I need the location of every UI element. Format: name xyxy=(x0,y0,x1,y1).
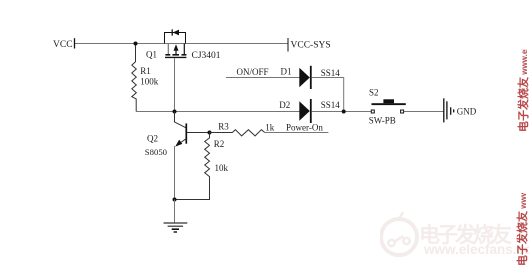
svg-text:R3: R3 xyxy=(218,122,229,132)
node VCC-SYS port tick xyxy=(287,38,289,52)
node junction D1/D2 xyxy=(342,110,346,114)
wire D2 cathode to switch xyxy=(312,111,372,113)
svg-text:VCC-SYS: VCC-SYS xyxy=(291,41,331,51)
watermark right edge bottom: www.elecfans.com 电子发烧友 (red, vertical) xyxy=(514,193,529,266)
switch S2 bar xyxy=(372,103,406,105)
transistor Q1 substrate arrow xyxy=(175,49,177,54)
svg-text:Q2: Q2 xyxy=(147,134,158,144)
node junction emitter/R2/ground xyxy=(173,198,177,202)
transistor Q2 collector lead xyxy=(175,112,187,128)
svg-text:SW-PB: SW-PB xyxy=(369,116,396,126)
transistor Q2 emitter with arrow xyxy=(177,139,187,146)
svg-text:Power-On: Power-On xyxy=(286,122,323,132)
watermark logo circle (light) xyxy=(380,212,420,260)
switch S2 button xyxy=(383,99,394,103)
svg-text:S2: S2 xyxy=(369,87,379,97)
power ground GND symbol xyxy=(444,98,454,122)
transistor Q1 channel segments xyxy=(165,54,170,56)
transistor Q1 gate bar xyxy=(165,56,186,58)
watermark right edge top: www.elecfans.com 电子发烧友 (red, vertical) xyxy=(515,49,529,132)
wire Q1 gate lead xyxy=(174,58,176,112)
switch S2 left terminal xyxy=(371,110,374,113)
svg-text:10k: 10k xyxy=(215,163,229,173)
node junction VCC/R1 xyxy=(134,42,138,46)
diode D2 xyxy=(299,101,310,120)
svg-text:D2: D2 xyxy=(279,100,290,110)
svg-text:S8050: S8050 xyxy=(145,147,168,157)
node VCC port tick xyxy=(74,38,76,48)
transistor Q1 body diode xyxy=(173,30,179,36)
transistor Q2 base bar xyxy=(185,123,187,143)
wire ON/OFF stub xyxy=(226,77,300,79)
svg-text:GND: GND xyxy=(457,107,477,117)
wire VCC rail xyxy=(75,43,289,45)
wire Power-On stub xyxy=(265,132,329,134)
switch S2 right terminal xyxy=(401,110,404,113)
svg-text:SS14: SS14 xyxy=(321,100,341,110)
wire mid rail to D2 anode xyxy=(136,111,300,113)
resistor R2 xyxy=(175,133,210,200)
svg-text:ON/OFF: ON/OFF xyxy=(237,67,269,77)
svg-text:R2: R2 xyxy=(214,139,225,149)
svg-text:VCC: VCC xyxy=(53,40,73,50)
svg-text:100k: 100k xyxy=(140,76,159,86)
svg-text:Q1: Q1 xyxy=(146,50,157,60)
wire ground stem xyxy=(174,200,176,223)
diode D1 xyxy=(299,68,310,87)
watermark url www.elecfans.com (light) xyxy=(424,242,529,257)
resistor R3 xyxy=(210,130,265,136)
ground xyxy=(164,223,188,232)
svg-text:SS14: SS14 xyxy=(321,68,341,78)
transistor Q1 body-diode loop xyxy=(165,33,186,44)
transistor Q1 drain stub xyxy=(183,44,185,55)
svg-text:CJ3401: CJ3401 xyxy=(192,51,221,61)
node junction base/R2/R3 xyxy=(208,131,212,135)
watermark text 电子发烧友 (light) xyxy=(419,219,529,249)
svg-text:D1: D1 xyxy=(281,67,292,77)
wire switch to GND xyxy=(404,111,444,113)
transistor Q1 source stub xyxy=(167,44,169,55)
resistor R1 xyxy=(132,44,137,112)
wire Q2 emitter down xyxy=(174,146,176,200)
wire Q2 base lead xyxy=(187,132,210,134)
svg-text:R1: R1 xyxy=(140,66,151,76)
node junction R1/Q1-gate/Q2 xyxy=(173,110,177,114)
wire D1 cathode to corner xyxy=(312,78,344,112)
svg-text:1k: 1k xyxy=(265,122,275,132)
